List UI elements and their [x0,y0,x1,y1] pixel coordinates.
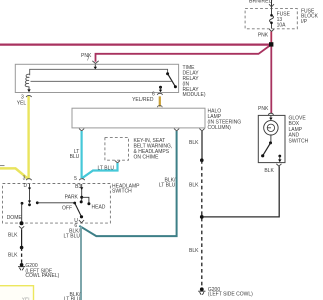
DOME contact [21,202,24,205]
wire BLK dome ground solid [21,229,23,247]
svg-text:PARK: PARK [65,195,79,201]
wire BLK/LT BLU pin6 down to bottom [80,227,82,300]
node glove ground joins bus [200,215,204,219]
ground bus dashed right [201,160,203,289]
connector headlamp pin 3 [26,179,31,180]
connector glove bottom [276,164,281,166]
relay line A [30,69,168,75]
wire LT BLU halo to headlamp pin 5 [80,131,82,178]
wire YEL relay pin3 down to headlamp switch [27,96,29,179]
glove switch arm [263,143,271,156]
svg-text:BLK: BLK [189,248,199,254]
wire PNK fuse to junction [270,31,272,44]
key-in chime dashed box [105,137,129,160]
svg-text:5: 5 [74,176,77,182]
glove box lamp and switch box [258,115,285,162]
wire BLK glove to ground bus [203,166,279,217]
relay pin 7 entry arrow [94,65,96,68]
ground bus dashed left [21,248,23,265]
connector headlamp pin 5 [79,179,84,180]
wire YEL stub from left edge [0,168,28,178]
svg-text:(LEFT SIDE COWL): (LEFT SIDE COWL) [208,291,253,297]
branch to HEAD contact [82,197,89,203]
fuse F13 element [270,8,274,28]
connector below fuse block [269,29,274,31]
node ground left [20,263,24,267]
connector pin U [79,220,84,223]
connector halo bottom BLK/LT BLU [174,129,179,131]
relay switch contact dot [166,72,169,75]
connector relay pin 3 [26,96,31,97]
svg-text:PNK: PNK [258,106,269,112]
svg-text:HEAD: HEAD [92,204,106,210]
glove lamp lead [270,135,272,143]
glove bottom pin [278,155,281,158]
svg-text:PNK: PNK [258,33,269,39]
svg-text:D: D [24,183,28,189]
yellow callout box bottom left [0,286,34,300]
svg-text:COWL PANEL): COWL PANEL) [25,273,59,279]
pin D arrow [29,184,31,188]
switch wiper [75,203,82,217]
glove lamp [264,121,278,135]
svg-text:BLK: BLK [264,168,274,174]
svg-text:LT BLU: LT BLU [159,183,176,189]
wire YEL/RED relay pin6 to halo lamp [159,96,161,106]
svg-text:LT BLU: LT BLU [64,297,81,300]
pin B3 line down [81,184,83,202]
connector chime bottom [115,161,120,163]
connector DOME below box [19,226,24,228]
connector relay pin 6 [157,93,162,94]
svg-text:SWITCH: SWITCH [112,188,132,194]
connector halo bottom BLK [199,129,204,131]
svg-text:YEL: YEL [22,296,31,300]
wire PNK junction down to glove box [270,44,272,113]
svg-text:BLU: BLU [70,154,80,160]
connector at relay pin 7 [92,61,98,64]
wire PNK main horizontal feed [0,43,271,45]
svg-text:MODULE): MODULE) [183,92,206,98]
glove pin arrow [270,116,272,118]
node right bus [200,158,204,162]
svg-text:YEL/RED: YEL/RED [132,97,154,103]
svg-text:BLK: BLK [189,183,199,189]
wire LT BLU chime to headlamp pin 5 [82,163,118,178]
wire BLK above fuse block [271,0,273,8]
node PARK contact [80,196,83,199]
headlamp switch dashed box [3,184,111,224]
relay switch arm [168,74,176,87]
svg-text:BLK: BLK [8,252,18,258]
ground symbol right G200 [198,291,205,295]
svg-text:3: 3 [21,94,24,100]
svg-text:COLUMN): COLUMN) [208,125,232,131]
ground symbol G200 left [18,267,25,271]
svg-text:SWITCH: SWITCH [289,139,309,145]
connector halo bottom LT BLU [79,129,84,131]
DOME wire down [21,203,23,223]
svg-text:LT BLU: LT BLU [98,165,115,171]
OFF contact line [36,201,39,204]
relay coil lead to pin 3 arrow [28,87,30,90]
node ground right [200,287,204,291]
connector glove top pin [268,113,273,115]
svg-text:LT BLU: LT BLU [64,234,81,240]
svg-text:YEL: YEL [17,101,27,107]
svg-text:7: 7 [87,57,90,63]
svg-text:3: 3 [23,176,26,182]
svg-text:BRN/RED: BRN/RED [249,0,273,4]
wire BLK halo right pin solid [201,131,203,160]
relay pin 6 contact dot and stub [159,86,162,89]
fuse block dashed box [245,9,297,29]
relay line B [31,80,172,82]
svg-text:B3: B3 [75,184,81,190]
svg-text:BLK: BLK [189,140,199,146]
svg-text:10A: 10A [277,23,287,29]
relay coil [25,74,30,87]
svg-text:DOME: DOME [7,215,23,221]
wire BLK/LT BLU halo down right side [79,131,176,236]
node left bus [20,246,24,250]
pin D line down to contact [29,190,31,201]
connector above fuse [269,4,274,7]
svg-text:OFF: OFF [62,206,72,212]
tick at left edge [0,165,5,167]
node main junction [269,42,273,46]
svg-text:ON CHIME: ON CHIME [134,154,160,160]
connector halo lamp top pin [157,106,162,108]
time delay relay box [15,64,178,92]
svg-text:I/P: I/P [301,19,308,25]
svg-text:BLK: BLK [8,233,18,239]
wire PNK branch to relay pin 7 [96,45,272,62]
halo lamp box [72,108,205,128]
